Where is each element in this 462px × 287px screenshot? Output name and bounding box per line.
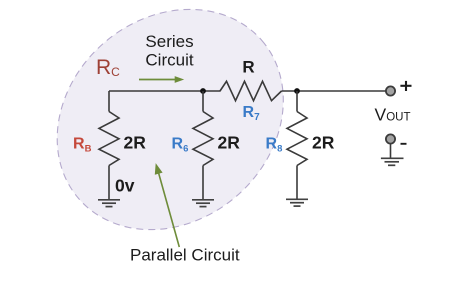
ground G2 [192, 200, 214, 207]
svg-text:0v: 0v [115, 176, 135, 196]
plus sign [400, 81, 411, 91]
wire: right branch down-lead [296, 91, 298, 112]
wire: left branch to ground [108, 166, 110, 200]
wire: middle branch to ground [202, 166, 204, 200]
terminal: + output [386, 86, 395, 95]
svg-text:2R: 2R [124, 133, 147, 153]
svg-text:Series: Series [145, 32, 193, 51]
svg-text:2R: 2R [312, 133, 335, 153]
resistor R6 zigzag (2R) [193, 112, 213, 166]
svg-text:2R: 2R [218, 133, 241, 153]
series direction arrow [139, 76, 184, 83]
svg-text:R: R [242, 58, 254, 77]
parallel direction arrow [155, 163, 180, 247]
wire: middle branch down-lead [202, 91, 204, 112]
resistor R8 zigzag (2R) [287, 112, 307, 166]
wire: top horizontal, right segment to + terminal [282, 90, 386, 92]
ground G4 [381, 158, 404, 165]
wire: left branch down-lead [108, 91, 110, 112]
wire: right branch to ground [296, 166, 298, 200]
wire: - terminal to ground [390, 144, 392, 159]
node: junction between RB and R6 branch [200, 88, 206, 94]
terminal: - output [386, 134, 395, 143]
resistor R7 zigzag [220, 81, 282, 100]
ground G1 [98, 200, 120, 207]
wire: top horizontal, left segment [109, 90, 221, 92]
svg-text:Parallel Circuit: Parallel Circuit [130, 246, 240, 265]
minus sign [401, 143, 407, 145]
parallel-circuit boundary ellipse (dashed) [12, 0, 328, 275]
resistor RB zigzag (2R) [99, 112, 119, 166]
svg-text:Circuit: Circuit [145, 51, 193, 70]
ground G3 [286, 199, 308, 206]
node: junction after R7 [294, 88, 300, 94]
